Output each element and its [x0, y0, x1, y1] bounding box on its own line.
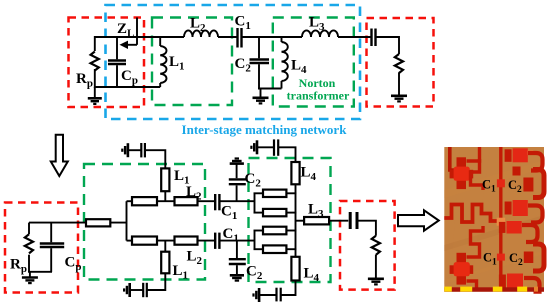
capacitor (bottom-right corner, series) — [277, 288, 281, 302]
resistor Rp (top) — [91, 52, 99, 71]
resistor Rp (bottom) — [28, 223, 30, 272]
red dashed box: source parallel RC (top left) — [69, 18, 145, 108]
wire: L4 bottom to cap — [281, 281, 295, 296]
wire: L1 bottom stub — [164, 241, 166, 252]
wire: vertical to L3 — [296, 220, 305, 222]
TL rect L4 (bottom) — [291, 257, 299, 281]
ground (top-right, rotated) — [251, 140, 257, 154]
photo: center vertical bias line — [499, 147, 502, 288]
capacitor C2 (top branch shunt) — [229, 164, 246, 201]
capacitor C1 (top, series) — [238, 28, 242, 48]
photo: left edge bias trace (top) — [450, 147, 455, 170]
wire: rail C2-L4 — [258, 88, 282, 90]
block arrow down — [51, 135, 68, 176]
photo: transistor pad cross (bottom-left) — [450, 253, 474, 285]
photo: mid-left meander (input line) — [444, 205, 497, 223]
wire: output cap to resistor — [357, 221, 376, 236]
wire: top branch to L2 — [157, 200, 175, 202]
capacitor C1 (bottom branch, series) — [215, 233, 219, 249]
wire: C1 to coupled lines (bottom) — [220, 240, 255, 242]
wire: L1 up to cap — [146, 150, 166, 168]
wire: L1 down to cap (bottom-left) — [148, 273, 166, 290]
green dashed box: L1-L2 section (top) — [152, 18, 232, 106]
wire: top output corner — [398, 36, 400, 54]
TL rect L4 (top) — [291, 162, 299, 184]
TL rect L1 (bottom) — [161, 252, 169, 274]
inductor L4 (top, shunt coil) — [282, 37, 288, 89]
capacitor Cp (bottom) — [40, 223, 64, 272]
wire: stubs to rows 1-2 — [254, 192, 264, 194]
green dashed box: Norton section (bottom) — [249, 158, 331, 282]
photo: yellow calibration dashes — [444, 287, 538, 292]
ZL looking-in arrow — [123, 18, 137, 45]
wire: cap to ground (top-left) — [128, 149, 141, 151]
block arrow right — [398, 210, 439, 230]
TL rect L2 (top) — [175, 197, 198, 205]
ground (inverted, above C2 top) — [230, 159, 244, 164]
ground (bottom-left, rotated) — [124, 283, 130, 297]
wire: cap to ground (bottom-left) — [130, 289, 143, 291]
capacitor (top-left corner, series) — [141, 143, 145, 157]
resistor (output load) — [372, 236, 380, 255]
red dashed box: source RC (bottom left) — [5, 203, 78, 293]
wire: stubs to rows 3-4 — [254, 230, 264, 232]
capacitor (top-right corner, series) — [274, 139, 278, 155]
TL rect row1 — [263, 190, 286, 197]
wire: cap to ground (top-right) — [257, 146, 273, 148]
capacitor C2 (top, shunt) — [250, 37, 270, 90]
ground (under Rp top) — [88, 87, 102, 104]
TL rect L3 — [304, 217, 329, 224]
capacitor (top output, series) — [372, 29, 376, 47]
wire: L4 top to cap — [279, 147, 296, 162]
TL rect row4 — [263, 245, 286, 253]
TL rect (bottom branch input line) — [132, 237, 157, 245]
coupled-line left vertical (bottom pair) — [254, 231, 256, 250]
wire: input to splitter — [110, 222, 126, 224]
wire: L1 top stub — [164, 191, 166, 202]
wire: bottom branch — [127, 240, 134, 242]
wire: resistor to ground — [375, 255, 377, 279]
input TL rect — [86, 219, 110, 226]
ground (top-left, rotated) — [122, 143, 128, 157]
green dashed box: Norton transformer (top) — [273, 18, 354, 107]
capacitor Cp (top) — [108, 37, 126, 87]
ground (top load) — [391, 96, 407, 102]
ground (below C2 bottom) — [230, 275, 244, 280]
wire: L2 to C1 (bottom) — [198, 240, 215, 242]
svg-text:Inter-stage matching network: Inter-stage matching network — [182, 122, 348, 137]
TL rect L1 (top) — [161, 168, 169, 191]
wire: L3 to output cap — [329, 220, 348, 222]
chip photo background — [444, 147, 544, 292]
blue dashed box: inter-stage matching network — [106, 5, 361, 119]
inductor L2 (top, series coil) — [184, 30, 218, 37]
inductor L1 (top, shunt coil) — [160, 37, 166, 87]
wire: right common vertical — [295, 184, 297, 256]
red dashed box: load (bottom) — [340, 201, 395, 290]
coupled-line left vertical (top pair) — [254, 193, 256, 212]
photo: C1 series cap square (top) — [497, 179, 505, 187]
wire: cap to ground (bottom-right) — [259, 294, 276, 296]
green dashed box: L1-L2 section (bottom) — [84, 164, 205, 280]
TL rect (top branch input line) — [132, 197, 157, 205]
wire: splitter vertical — [126, 201, 128, 240]
TL rect row3 — [263, 227, 286, 235]
ground (under C2 top) — [253, 89, 269, 104]
photo: bottom dark strip — [444, 287, 544, 291]
wire: left vertical + bottom rail of RC loop — [94, 36, 160, 88]
capacitor (output, series) — [350, 212, 357, 229]
capacitor C1 (top branch, series) — [215, 194, 219, 210]
inductor L3 (top, series coil) — [302, 30, 338, 37]
TL rect L2 (bottom) — [175, 237, 198, 245]
photo: transistor pad cross (top-left) — [450, 157, 474, 189]
svg-text:transformer: transformer — [287, 89, 350, 103]
resistor (top load) — [395, 54, 403, 73]
TL rect row2 — [263, 209, 286, 216]
capacitor C2 (bottom branch shunt) — [229, 241, 246, 275]
red dashed box: load (top right) — [367, 18, 434, 107]
wire: L2 to C1 (top) — [198, 200, 215, 202]
wire: bottom rail RC (bottom circuit) — [28, 271, 52, 273]
wire: right stubs rows 1-4 — [286, 193, 296, 249]
wire: main top rail segments — [94, 36, 399, 38]
photo: orange via pad (center) — [497, 218, 506, 226]
wire: top branch — [127, 200, 134, 202]
photo: right column pads (bottom group) — [499, 221, 544, 292]
wire: bottom branch to L2 — [157, 240, 175, 242]
ground (bottom Rp) — [22, 272, 38, 283]
ground (output load) — [368, 279, 384, 285]
wire: C1 to coupled lines (top) — [220, 200, 255, 202]
capacitor (bottom-left corner, series) — [143, 283, 147, 297]
photo: meander trace (top-left) — [467, 147, 480, 161]
ground (bottom-right, rotated) — [254, 288, 260, 302]
photo: meander trace (bottom-left) — [467, 226, 484, 257]
wire: load to ground — [398, 73, 400, 96]
photo: C1 series cap square (bottom) — [497, 254, 505, 261]
photo: right column pads (top group) — [505, 148, 544, 222]
wire: input feed — [29, 222, 86, 224]
